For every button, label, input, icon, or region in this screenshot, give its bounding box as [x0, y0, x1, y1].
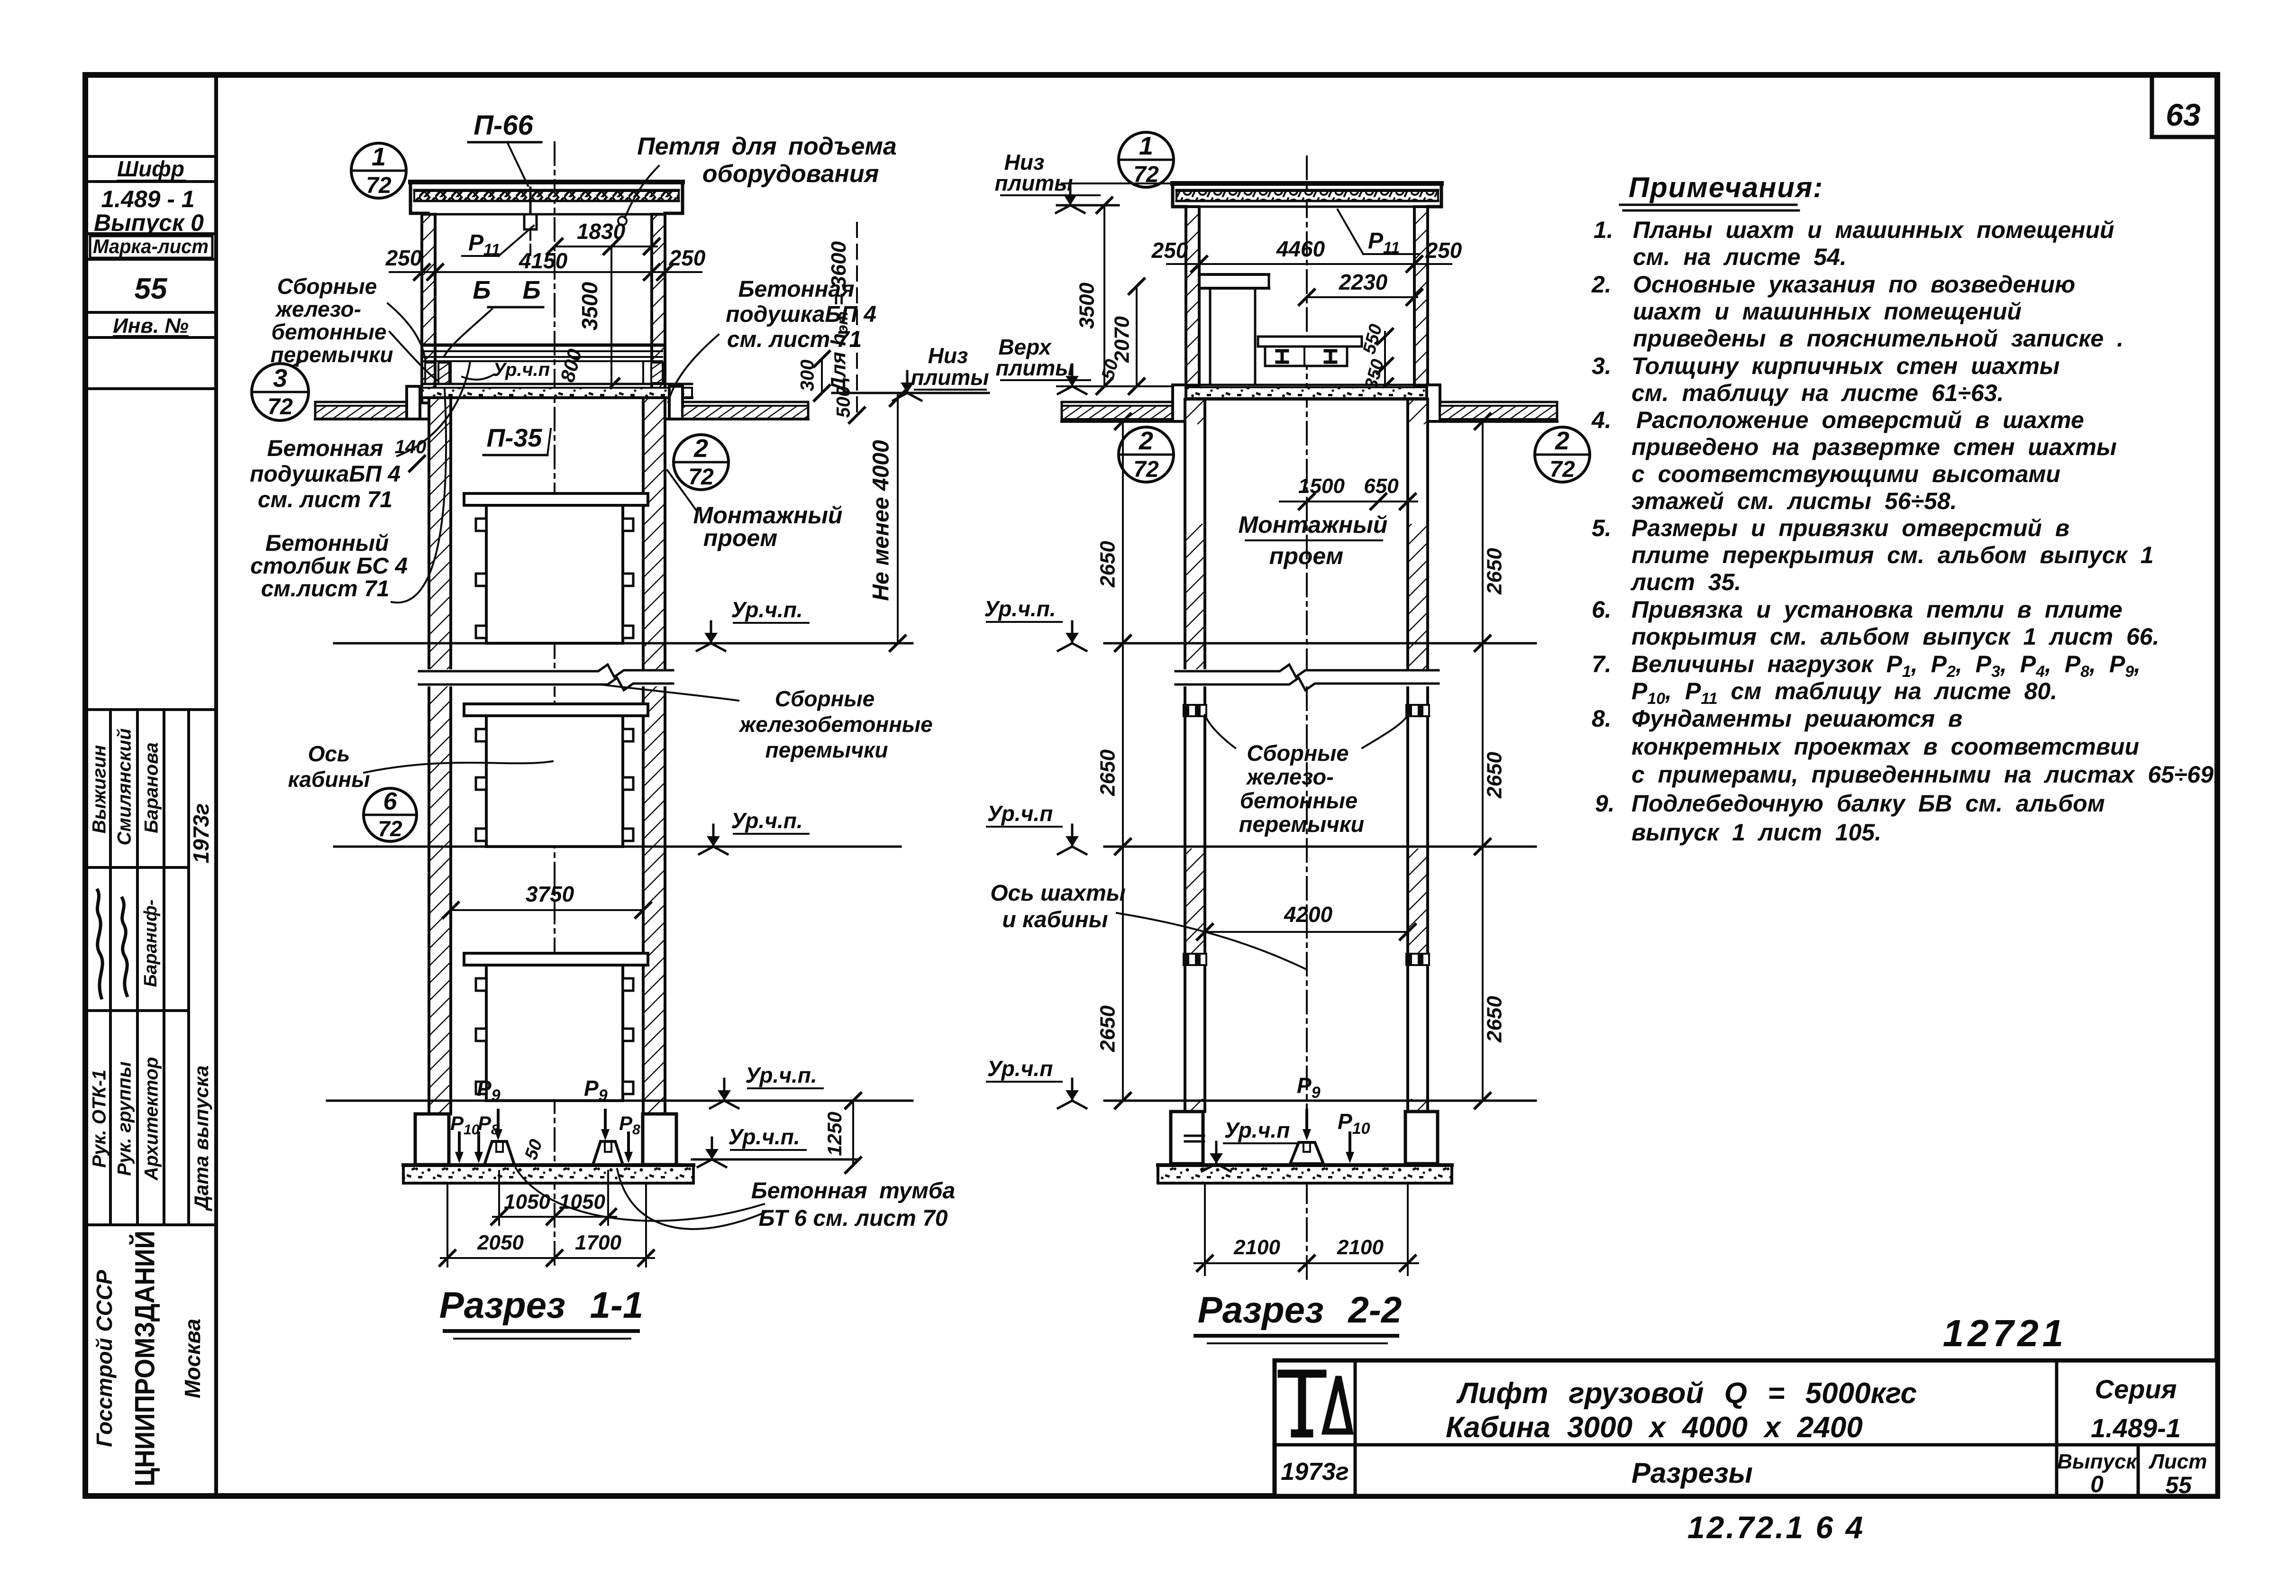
svg-text:Величины нагрузок Р1, Р2,: Величины нагрузок Р1, Р2, Р3, Р4, Р8, Р9… — [1631, 651, 2141, 681]
shaft right wall — [643, 398, 665, 1114]
svg-text:бетонные: бетонные — [272, 319, 387, 344]
svg-text:3500: 3500 — [1075, 283, 1099, 329]
svg-text:72: 72 — [378, 816, 402, 841]
svg-text:2230: 2230 — [1339, 270, 1388, 294]
svg-text:проем: проем — [703, 525, 777, 551]
svg-text:2050: 2050 — [477, 1231, 524, 1254]
svg-text:Р10, Р11 см таблицу на лис: Р10, Р11 см таблицу на листе 80. — [1631, 678, 2057, 708]
cab section 3 body — [486, 965, 623, 1101]
detail circle 2/72 (tower1) — [674, 435, 729, 490]
machine room left wall — [422, 214, 435, 403]
shaft left wall — [429, 398, 451, 1114]
svg-text:Ур.ч.п.: Ур.ч.п. — [728, 1124, 800, 1149]
dim 2050 1700 — [446, 1185, 448, 1267]
svg-text:Инв. №: Инв. № — [113, 314, 189, 337]
pit floor slab — [403, 1165, 693, 1183]
svg-text:1: 1 — [1139, 132, 1153, 160]
svg-text:1.489 - 1: 1.489 - 1 — [101, 186, 194, 212]
detail circle 1/72 (tower2) — [1119, 132, 1174, 187]
svg-text:железо-: железо- — [274, 297, 361, 321]
pedestal right — [593, 1141, 623, 1165]
dim 2070 rotated — [1136, 286, 1138, 386]
dim 550 350 rotated — [1384, 332, 1386, 391]
break line lower — [419, 678, 673, 690]
cab section 1 body — [486, 505, 623, 643]
svg-text:Кабина 3000 х 4000 х 2400: Кабина 3000 х 4000 х 2400 — [1446, 1411, 1863, 1444]
dim 2650 column right t2 — [1482, 421, 1484, 1101]
roof end caps — [410, 182, 428, 213]
curb left t2 — [1173, 385, 1186, 421]
svg-text:3750: 3750 — [526, 882, 574, 906]
dim Не менее 4000 — [897, 393, 899, 643]
svg-text:0: 0 — [2090, 1471, 2104, 1497]
svg-text:Монтажный: Монтажный — [1239, 511, 1388, 538]
svg-text:выпуск 1 лист 105.: выпуск 1 лист 105. — [1631, 819, 1881, 846]
svg-text:1.489-1: 1.489-1 — [2091, 1413, 2181, 1443]
svg-text:Бетонная тумба: Бетонная тумба — [751, 1178, 955, 1204]
svg-text:250: 250 — [385, 246, 422, 270]
svg-text:2650: 2650 — [1483, 548, 1506, 595]
dim 3500 rotated (tower2) — [1103, 205, 1105, 386]
svg-text:плиты: плиты — [911, 365, 989, 390]
svg-text:Ур.ч.п: Ур.ч.п — [493, 359, 550, 380]
svg-text:2.: 2. — [1591, 271, 1612, 298]
TD logo letter T — [1282, 1374, 1322, 1433]
svg-text:Разрезы: Разрезы — [1631, 1457, 1753, 1489]
svg-text:подушкаБП 4: подушкаБП 4 — [726, 302, 876, 327]
svg-text:П-66: П-66 — [474, 110, 533, 141]
svg-text:столбик БС 4: столбик БС 4 — [250, 554, 408, 579]
roof slab tower2 — [1173, 181, 1441, 186]
svg-text:плиты: плиты — [996, 356, 1074, 380]
svg-text:Рук. группы: Рук. группы — [114, 1061, 135, 1176]
center line of cab (axis) — [554, 142, 556, 1270]
break band t2 — [1175, 669, 1439, 686]
pit ground level line — [692, 1158, 858, 1161]
svg-text:Ур.ч.п: Ур.ч.п — [987, 1056, 1053, 1081]
signature squiggle 2 — [122, 898, 128, 995]
svg-text:см. таблицу на листе 61÷63.: см. таблицу на листе 61÷63. — [1631, 380, 2004, 406]
left side roof strip — [315, 401, 407, 403]
hoist beam plate — [1258, 337, 1362, 347]
svg-text:2100: 2100 — [1337, 1236, 1384, 1259]
anchor circle on roof — [618, 217, 627, 225]
svg-text:Рук. ОТК-1: Рук. ОТК-1 — [89, 1069, 110, 1167]
svg-text:1250: 1250 — [823, 1112, 846, 1156]
svg-text:1973г: 1973г — [1281, 1458, 1348, 1486]
svg-text:2650: 2650 — [1096, 541, 1120, 588]
machine room right wall t2 — [1414, 207, 1428, 386]
machine room right wall — [652, 214, 665, 403]
svg-text:Ось шахты: Ось шахты — [990, 881, 1126, 906]
dim 2650 column left t2 — [1122, 421, 1124, 1101]
svg-text:7.: 7. — [1592, 651, 1612, 677]
svg-text:2: 2 — [693, 434, 708, 463]
curb right t2 — [1427, 385, 1440, 421]
svg-text:Низ: Низ — [928, 343, 968, 368]
svg-text:приведено на развертке стен: приведено на развертке стен шахты — [1631, 434, 2117, 460]
svg-text:см.лист 71: см.лист 71 — [261, 576, 390, 602]
svg-text:72: 72 — [366, 173, 392, 198]
svg-text:72: 72 — [267, 394, 293, 420]
pedestal left — [484, 1141, 514, 1165]
pedestal t2 — [1290, 1142, 1323, 1164]
svg-text:3.: 3. — [1592, 353, 1612, 379]
svg-text:55: 55 — [2165, 1472, 2192, 1498]
detail circle 2/72 right t2 — [1535, 427, 1590, 482]
signature squiggle 1 — [97, 890, 102, 998]
svg-text:Ур.ч.п: Ур.ч.п — [987, 801, 1053, 826]
shaft right wall t2 — [1408, 399, 1428, 1112]
dashed dim line for h floor — [856, 223, 858, 415]
machine room ceiling line — [422, 213, 665, 216]
cab section 2 body — [486, 716, 623, 847]
svg-text:1700: 1700 — [575, 1231, 621, 1254]
pit floor slab t2 — [1158, 1165, 1452, 1183]
svg-text:300: 300 — [797, 360, 818, 392]
svg-text:с примерами, приведенными на: с примерами, приведенными на листах 65÷6… — [1631, 761, 2220, 788]
svg-text:4.: 4. — [1591, 407, 1612, 433]
svg-text:лист 35.: лист 35. — [1631, 569, 1741, 595]
floor level lines t2 — [1104, 642, 1536, 645]
svg-text:6: 6 — [383, 788, 398, 815]
break line upper — [419, 665, 673, 677]
dim 1250 vertical — [852, 1101, 854, 1165]
svg-text:железо-: железо- — [1245, 764, 1334, 789]
svg-text:4150: 4150 — [519, 248, 568, 273]
detail circle 6/72 — [364, 788, 417, 841]
page number box — [2152, 75, 2217, 137]
svg-text:12721: 12721 — [1943, 1312, 2067, 1354]
svg-text:см. на листе 54.: см. на листе 54. — [1633, 244, 1847, 270]
svg-text:2: 2 — [1555, 427, 1569, 455]
right side roof strip — [683, 401, 808, 403]
svg-text:Лифт грузовой Q = 5000кгс: Лифт грузовой Q = 5000кгс — [1456, 1377, 1917, 1410]
hoist beam box with I profiles — [1265, 347, 1347, 366]
svg-text:и кабины: и кабины — [1002, 907, 1108, 932]
svg-text:3: 3 — [273, 364, 287, 392]
svg-text:72: 72 — [1133, 457, 1159, 482]
svg-text:этажей см. листы 56÷58.: этажей см. листы 56÷58. — [1631, 488, 1957, 514]
svg-text:Ось: Ось — [308, 741, 350, 766]
svg-text:приведены в пояснительной з: приведены в пояснительной записке . — [1633, 325, 2123, 352]
svg-text:2650: 2650 — [1096, 749, 1120, 796]
dim 4460 + 250 250 — [1167, 263, 1451, 265]
svg-text:покрытия см. альбом выпуск 1: покрытия см. альбом выпуск 1 лист 66. — [1631, 623, 2159, 650]
foundation block left t2 — [1171, 1112, 1203, 1164]
svg-text:перемычки: перемычки — [271, 342, 393, 367]
svg-text:Ур.ч.п.: Ур.ч.п. — [984, 596, 1056, 621]
svg-text:Архитектор: Архитектор — [141, 1057, 162, 1181]
svg-text:Основные указания по возведе: Основные указания по возведению — [1633, 271, 2075, 298]
foundation block right t2 — [1405, 1112, 1438, 1164]
stamp cell lines — [85, 155, 216, 158]
svg-text:Разрез 1-1: Разрез 1-1 — [439, 1284, 643, 1326]
cab section 1 cap — [464, 493, 648, 505]
svg-text:перемычки: перемычки — [1239, 812, 1365, 837]
svg-text:Ур.ч.п: Ур.ч.п — [1224, 1118, 1290, 1142]
title block frame — [1275, 1360, 2217, 1496]
detail circle 3/72 — [252, 364, 309, 420]
svg-text:Планы шахт и машинных помещ: Планы шахт и машинных помещений — [1633, 217, 2114, 243]
dim 1830 — [555, 246, 657, 247]
svg-text:проем: проем — [1269, 543, 1343, 569]
shaft left wall t2 — [1185, 399, 1205, 1112]
TD logo letter Delta — [1325, 1377, 1350, 1432]
svg-text:Подлебедочную балку БВ см.: Подлебедочную балку БВ см. альбом — [1631, 790, 2105, 817]
svg-text:2070: 2070 — [1111, 316, 1134, 363]
svg-text:Фундаменты решаются в: Фундаменты решаются в — [1631, 705, 1962, 732]
cab section 3 cap — [464, 953, 648, 965]
svg-text:250: 250 — [669, 246, 706, 270]
signature table verticals — [109, 710, 112, 1225]
svg-text:Размеры и привязки отверсти: Размеры и привязки отверстий в — [1631, 515, 2069, 541]
svg-text:Лист: Лист — [2149, 1450, 2207, 1473]
svg-text:см. лист 71: см. лист 71 — [258, 487, 392, 512]
svg-text:Толщину кирпичных стен шахт: Толщину кирпичных стен шахты — [1631, 353, 2059, 379]
svg-text:1050: 1050 — [559, 1190, 605, 1213]
svg-text:Бетонный: Бетонный — [265, 531, 389, 556]
svg-text:12.72.1 6 4: 12.72.1 6 4 — [1687, 1510, 1865, 1545]
floor level line 1 — [334, 642, 912, 645]
break band white gap — [419, 669, 673, 686]
svg-text:55: 55 — [135, 273, 168, 305]
svg-text:П-35: П-35 — [487, 424, 543, 452]
svg-text:Дата выпуска: Дата выпуска — [190, 1066, 212, 1212]
svg-text:Ур.ч.п.: Ур.ч.п. — [731, 597, 802, 622]
svg-text:72: 72 — [1549, 457, 1575, 482]
cab section 2 cap — [464, 704, 648, 716]
svg-text:БТ 6 см. лист 70: БТ 6 см. лист 70 — [759, 1206, 948, 1231]
right side roof strip t2 — [1440, 401, 1557, 403]
svg-text:Сборные: Сборные — [1247, 740, 1348, 766]
svg-text:конкретных проектах в соотв: конкретных проектах в соответствии — [1631, 733, 2139, 760]
door jamb lines — [1209, 288, 1212, 385]
dim 3500 vertical — [610, 246, 612, 386]
svg-text:2650: 2650 — [1483, 752, 1506, 799]
svg-text:Шифр: Шифр — [117, 156, 184, 181]
left curb — [407, 386, 420, 419]
machine room roof slab — [410, 180, 683, 184]
svg-text:ЦНИИПРОМЗДАНИЙ: ЦНИИПРОМЗДАНИЙ — [129, 1231, 160, 1487]
svg-text:2650: 2650 — [1096, 1005, 1120, 1052]
svg-text:Марка-лист: Марка-лист — [93, 235, 209, 257]
svg-text:250: 250 — [1425, 238, 1462, 263]
svg-text:бетонные: бетонные — [1240, 788, 1358, 813]
svg-text:Ур.ч.п.: Ур.ч.п. — [745, 1063, 817, 1087]
foundation block right — [643, 1114, 676, 1165]
svg-text:Выжигин: Выжигин — [89, 745, 110, 834]
wall hatch segments t2 — [1186, 401, 1426, 1112]
svg-text:оборудования: оборудования — [702, 160, 879, 188]
svg-text:Не менее 4000: Не менее 4000 — [869, 440, 894, 601]
dim 4150 + 250 250 — [390, 271, 702, 273]
svg-text:Сборные: Сборные — [277, 274, 377, 299]
title block divider horizontal — [1275, 1443, 2217, 1447]
svg-text:Сборные: Сборные — [775, 686, 875, 711]
slab lines — [422, 383, 692, 385]
detail circle 1/72 (tower1) — [351, 143, 406, 198]
svg-text:подушкаБП 4: подушкаБП 4 — [250, 462, 401, 487]
svg-text:Разрез 2-2: Разрез 2-2 — [1198, 1289, 1402, 1331]
svg-text:3500: 3500 — [577, 282, 602, 330]
title block divider: logo cell — [1354, 1360, 1357, 1496]
svg-text:250: 250 — [1151, 238, 1188, 263]
detail circle 2/72 left t2 — [1119, 427, 1174, 482]
center line of shaft axis — [1306, 156, 1308, 1280]
floor level line 2 — [334, 846, 901, 848]
svg-text:Б Б: Б Б — [473, 276, 553, 304]
svg-text:кабины: кабины — [288, 767, 370, 792]
svg-text:плите перекрытия см. альбом: плите перекрытия см. альбом выпуск 1 — [1631, 542, 2154, 568]
right curb — [669, 386, 683, 419]
door header in machine room — [1199, 273, 1269, 276]
svg-text:8.: 8. — [1592, 705, 1612, 732]
dim 2100 2100 — [1204, 1185, 1206, 1275]
dim 300 rotated — [821, 359, 823, 393]
dim 1050 1050 — [498, 1171, 500, 1225]
svg-text:Петля для подъема: Петля для подъема — [637, 133, 897, 160]
svg-text:2: 2 — [1139, 427, 1153, 455]
svg-text:63: 63 — [2166, 97, 2200, 132]
svg-text:Ур.ч.п.: Ур.ч.п. — [731, 808, 802, 833]
concrete pad blocks at walls — [425, 363, 435, 384]
svg-text:1.: 1. — [1594, 217, 1613, 243]
svg-text:с соответствующими высотами: с соответствующими высотами — [1631, 461, 2060, 487]
svg-text:1050: 1050 — [504, 1190, 550, 1213]
svg-text:Москва: Москва — [180, 1319, 205, 1398]
svg-text:Выпуск: Выпуск — [2057, 1450, 2138, 1473]
notes body — [1591, 217, 2220, 846]
svg-text:шахт и машинных помещений: шахт и машинных помещений — [1633, 298, 2022, 325]
svg-text:650: 650 — [1364, 474, 1399, 498]
left stamp column divider — [214, 75, 218, 1496]
svg-text:Привязка и установка петли: Привязка и установка петли в плите — [1631, 596, 2123, 623]
title block divider: seria cell — [2055, 1360, 2059, 1496]
svg-text:1: 1 — [372, 143, 386, 171]
svg-text:1500: 1500 — [1298, 474, 1345, 498]
svg-text:1973г: 1973г — [189, 803, 213, 864]
svg-text:4460: 4460 — [1276, 237, 1325, 261]
machine room left wall t2 — [1186, 207, 1199, 386]
machine room floor slab t2 — [1186, 384, 1428, 386]
svg-text:Серия: Серия — [2095, 1374, 2177, 1404]
svg-text:2100: 2100 — [1233, 1236, 1280, 1259]
stamp cell: Марка-лист — [90, 236, 212, 258]
svg-text:железобетонные: железобетонные — [738, 712, 932, 737]
lintel checker blocks t2 — [1184, 705, 1206, 716]
svg-text:Бараниф-: Бараниф- — [141, 900, 161, 987]
svg-text:4200: 4200 — [1284, 902, 1333, 927]
svg-text:Расположение отверстий в шах: Расположение отверстий в шахте — [1636, 407, 2084, 433]
floor level line 3 — [327, 1100, 912, 1102]
svg-text:9.: 9. — [1595, 790, 1615, 817]
svg-text:Бетонная: Бетонная — [267, 436, 383, 461]
title block divider: list cell — [2137, 1445, 2140, 1496]
svg-text:Баранова: Баранова — [141, 742, 162, 833]
svg-text:Примечания:: Примечания: — [1629, 172, 1823, 203]
foundation block left — [415, 1114, 449, 1165]
left side roof strip t2 — [1062, 401, 1173, 403]
machine room floor slabs — [424, 344, 662, 347]
svg-text:Госстрой СССР: Госстрой СССР — [92, 1270, 117, 1447]
svg-text:Выпуск 0: Выпуск 0 — [94, 210, 204, 236]
svg-text:2650: 2650 — [1483, 996, 1506, 1043]
dim 2230 — [1307, 296, 1417, 298]
svg-text:перемычки: перемычки — [765, 738, 888, 762]
svg-text:Смилянский: Смилянский — [114, 729, 135, 846]
svg-text:72: 72 — [688, 465, 714, 490]
svg-text:6.: 6. — [1592, 596, 1612, 623]
svg-text:5.: 5. — [1592, 515, 1612, 541]
lifting loop in roof — [524, 214, 537, 229]
dims 1500 650 — [1280, 501, 1417, 502]
